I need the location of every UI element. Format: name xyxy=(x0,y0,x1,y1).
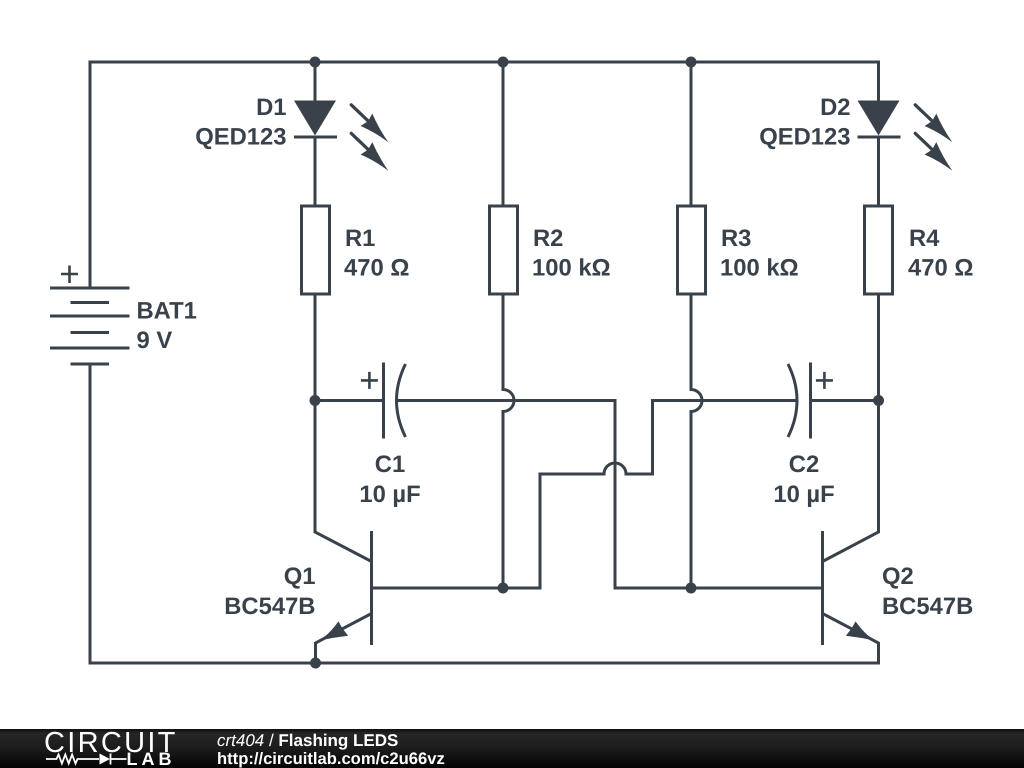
svg-text:R1: R1 xyxy=(345,225,375,252)
svg-text:R3: R3 xyxy=(721,225,751,252)
svg-text:9 V: 9 V xyxy=(137,327,173,354)
svg-text:LAB: LAB xyxy=(127,749,176,768)
svg-text:100 kΩ: 100 kΩ xyxy=(720,255,799,282)
svg-text:Q2: Q2 xyxy=(882,563,914,590)
svg-text:BC547B: BC547B xyxy=(882,593,973,620)
svg-text:10 µF: 10 µF xyxy=(359,481,420,508)
svg-text:D1: D1 xyxy=(256,94,286,121)
svg-text:QED123: QED123 xyxy=(759,124,850,151)
svg-text:R2: R2 xyxy=(533,225,563,252)
svg-text:C1: C1 xyxy=(375,451,405,478)
svg-text:R4: R4 xyxy=(909,225,940,252)
svg-text:QED123: QED123 xyxy=(195,124,286,151)
svg-text:http://circuitlab.com/c2u66vz: http://circuitlab.com/c2u66vz xyxy=(217,749,445,768)
svg-text:BC547B: BC547B xyxy=(224,593,315,620)
svg-text:BAT1: BAT1 xyxy=(137,298,197,325)
svg-text:470 Ω: 470 Ω xyxy=(344,255,409,282)
svg-text:D2: D2 xyxy=(820,94,850,121)
svg-text:crt404 / Flashing LEDS: crt404 / Flashing LEDS xyxy=(217,731,398,750)
svg-text:C2: C2 xyxy=(789,451,819,478)
svg-text:10 µF: 10 µF xyxy=(773,481,834,508)
svg-text:470 Ω: 470 Ω xyxy=(908,255,973,282)
svg-text:Q1: Q1 xyxy=(284,563,316,590)
svg-text:100 kΩ: 100 kΩ xyxy=(532,255,611,282)
